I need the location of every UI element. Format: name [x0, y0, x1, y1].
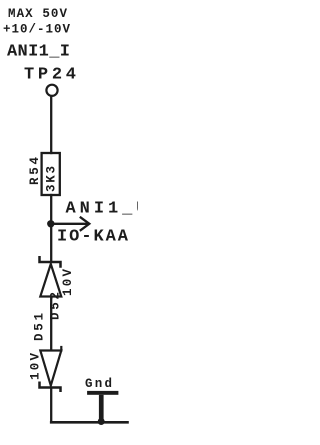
svg-text:Gnd: Gnd	[85, 377, 112, 391]
ground bar	[87, 391, 118, 395]
resistor R54 body	[42, 153, 60, 195]
svg-text:3K3: 3K3	[44, 166, 58, 192]
zener D51 triangle	[40, 351, 61, 386]
svg-text:D51: D51	[33, 313, 47, 341]
zener D51 cathode bar	[40, 383, 61, 391]
junction node	[47, 220, 54, 227]
wire bottom horizontal	[51, 421, 127, 424]
svg-text:R54: R54	[28, 157, 42, 185]
svg-text:10V: 10V	[61, 269, 75, 296]
svg-text:D52: D52	[49, 292, 63, 320]
wire D52 to D51	[50, 297, 52, 351]
svg-text:ANI1_I: ANI1_I	[7, 43, 70, 62]
wire R54 to junction	[50, 195, 52, 224]
zener D52 cathode bar	[40, 257, 61, 266]
testpoint TP24 pin circle	[46, 85, 57, 96]
svg-text:+10/-10V: +10/-10V	[3, 23, 70, 37]
arrowhead	[80, 217, 90, 231]
wire arrow line	[51, 223, 87, 225]
svg-text:10V: 10V	[29, 353, 43, 380]
ground junction node	[98, 418, 105, 425]
wire D51 to corner	[50, 389, 52, 423]
zener D51 anode tick	[60, 347, 62, 351]
wire TP24 to R54	[50, 96, 52, 153]
zener D52 triangle	[40, 264, 61, 297]
wire junction to D52	[50, 224, 52, 261]
svg-text:MAX 50V: MAX 50V	[8, 7, 67, 21]
ground stem	[99, 395, 104, 422]
